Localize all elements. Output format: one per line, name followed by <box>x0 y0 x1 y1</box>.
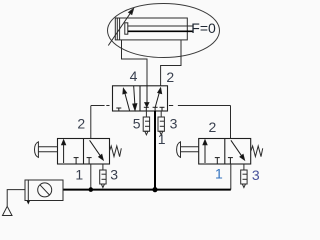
wire cylinder right port to valve port 2 <box>161 40 181 86</box>
1S2 return spring <box>251 146 263 157</box>
pressure line port 1 of 1V down to supply (bold) <box>154 111 156 190</box>
supply inlet pipe <box>7 190 25 206</box>
svg-text:3: 3 <box>170 116 178 132</box>
right box interior (position A, active) <box>144 86 165 111</box>
1S1 return spring <box>110 146 122 157</box>
1S2 push button actuator <box>177 142 199 158</box>
pilot line 12 (right, dashed) <box>169 105 173 107</box>
silencer at port 3 (valve 1V) <box>158 111 164 135</box>
blocked port 3 stub <box>160 106 165 108</box>
cylinder 1A (double-acting) <box>115 18 192 40</box>
blocked port 5 stub <box>118 108 120 111</box>
annotation arrow <box>108 9 133 46</box>
1S1 push button actuator <box>35 142 58 158</box>
svg-text:1: 1 <box>75 167 83 183</box>
flow 4 to 5 down arrow <box>146 86 148 103</box>
intake triangle <box>3 206 13 215</box>
supply line (bold) <box>63 189 231 191</box>
wire port 1 of 1S1 down to supply <box>90 164 92 190</box>
air service unit 0Z <box>25 180 63 202</box>
svg-text:2: 2 <box>166 69 174 85</box>
svg-text:2: 2 <box>209 119 217 135</box>
1S1 left box interior <box>62 140 79 164</box>
flow 1 to 2 diagonal arrow <box>155 92 159 108</box>
flow 2 to 3 down arrow <box>134 86 135 104</box>
junction node at 1S1 port 1 <box>89 187 94 192</box>
piston rod <box>128 25 193 27</box>
silencer at port 5 <box>143 111 149 135</box>
svg-text:5: 5 <box>133 116 141 132</box>
pilot line 14 (left, dashed) <box>91 105 105 107</box>
valve 1V 5/2 impulse valve body <box>113 86 168 111</box>
flow 1 to 4 diagonal arrow <box>125 93 130 111</box>
piston <box>116 18 118 40</box>
wire port 1 of 1S2 down to supply <box>230 164 232 190</box>
annotation ellipse <box>108 4 220 58</box>
svg-text:F=0: F=0 <box>191 20 216 36</box>
svg-text:2: 2 <box>77 115 85 131</box>
1S2 right box interior (2 to 3, active) <box>228 140 245 164</box>
wire port 2 of 1S2 up to pilot <box>230 106 232 139</box>
svg-text:3: 3 <box>252 167 260 183</box>
1S1 right box interior (2 to 3, active) <box>87 140 104 164</box>
wire cylinder left port to valve port 4 <box>122 40 148 86</box>
svg-text:1: 1 <box>215 166 223 182</box>
junction node at 1V port 1 <box>152 187 157 192</box>
silencer at port 3 (1S1) <box>100 164 106 188</box>
svg-text:4: 4 <box>130 68 138 84</box>
valve 1S2 3/2 push-button body <box>199 139 251 165</box>
left box interior (position B) <box>116 86 137 111</box>
1S2 left box interior <box>203 140 220 164</box>
silencer at port 3 (1S2) <box>241 164 247 188</box>
wire port 2 of 1S1 up to pilot <box>90 106 92 139</box>
rod end block <box>125 23 128 34</box>
valve 1S1 3/2 push-button body <box>58 139 110 165</box>
svg-text:3: 3 <box>110 167 118 183</box>
